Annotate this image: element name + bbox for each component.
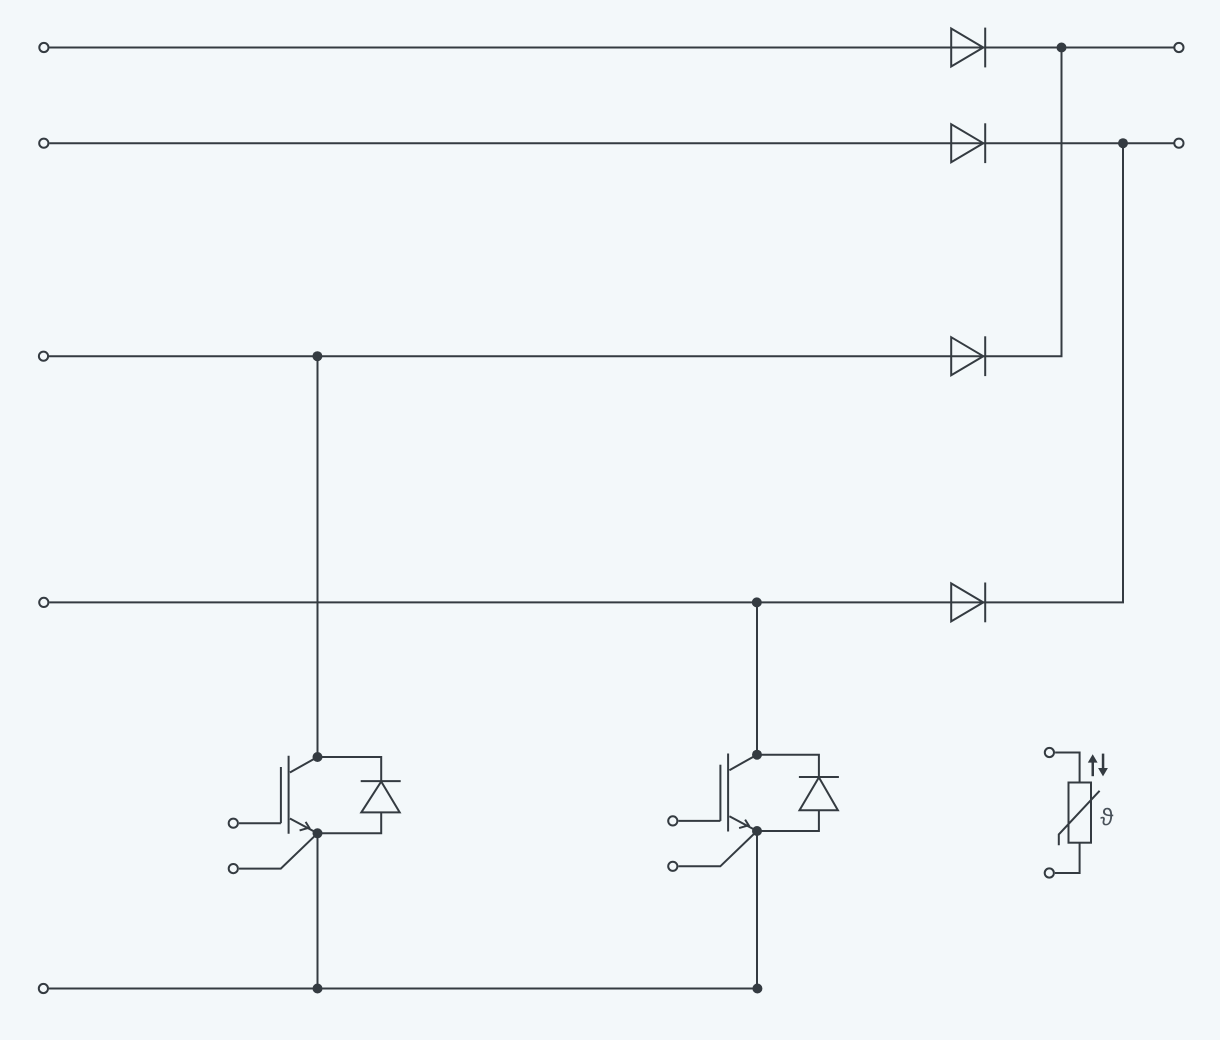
- Q1 aux emitter lead wire: [239, 833, 318, 868]
- Q2 emitter arrow: [739, 820, 749, 829]
- diode D1 (rail 1): [951, 28, 985, 68]
- wire AC input phase 1 (top rail): [49, 47, 1173, 49]
- Q1 freewheel diode branch wire (bottom): [318, 812, 382, 833]
- RT1 thermistor diagonal stroke: [1059, 791, 1100, 846]
- Q2 freewheel diode branch wire (top): [757, 755, 819, 777]
- Q2 gate bar: [719, 765, 721, 821]
- wire vertical from node on rail 2 down to diode D4 output: [1122, 143, 1123, 602]
- diode D2 (rail 2): [951, 123, 985, 163]
- Q2 collector lead: [729, 755, 757, 771]
- Q1 emitter node: [313, 828, 323, 838]
- Q2 freewheel diode triangle: [800, 777, 838, 810]
- Q1 gate bar: [280, 767, 282, 823]
- Q1 emitter arrow: [300, 822, 310, 831]
- thermistor RT1 (NTC temperature sensor): [1045, 748, 1114, 878]
- diode D3 (rail 3): [951, 336, 985, 376]
- junction node rail2 / D4 branch: [1118, 138, 1128, 148]
- RT1 up arrow (resistance change indicator): [1088, 754, 1098, 776]
- transistor Q2 (IGBT with freewheel diode): [668, 750, 839, 871]
- Q2 collector node: [752, 750, 762, 760]
- junction node bottom bus / Q1 emitter: [313, 984, 323, 994]
- RT1 down arrow (temperature indicator): [1098, 754, 1108, 777]
- wire rail 4 node down to IGBT Q2 collector: [756, 602, 758, 754]
- diode D4 (rail 4): [951, 583, 985, 623]
- terminal left rail 1: [39, 43, 48, 52]
- wire AC input phase 4 (fourth rail): [49, 601, 1122, 603]
- Q1 emitter lead: [290, 819, 318, 834]
- Q2 freewheel diode branch wire (bottom): [757, 810, 819, 831]
- Q2 aux emitter lead wire: [679, 831, 758, 866]
- Q2 aux emitter terminal: [668, 862, 677, 871]
- transistor Q1 (IGBT with freewheel diode): [229, 752, 401, 873]
- Q2 gate terminal: [668, 816, 677, 825]
- wire vertical from node on rail 1 down to diode D3 output: [1061, 48, 1062, 357]
- wire AC input phase 3 (third rail): [49, 355, 1061, 357]
- junction node rail3 / Q1 branch: [312, 351, 322, 361]
- RT1 top terminal: [1045, 748, 1054, 757]
- wire IGBT Q1 emitter down to bottom bus: [317, 833, 319, 988]
- Q2 emitter lead: [729, 816, 757, 831]
- Q1 aux emitter terminal: [229, 864, 238, 873]
- RT1 bottom lead wire: [1055, 843, 1080, 873]
- wire IGBT Q2 emitter down to bottom bus: [756, 831, 758, 989]
- wire rail 3 node down to IGBT Q1 collector: [317, 356, 319, 757]
- terminal left bottom bus: [39, 984, 48, 993]
- Q2 emitter node: [752, 826, 762, 836]
- junction node bottom bus / Q2 emitter: [752, 984, 762, 994]
- Q1 collector node: [313, 752, 323, 762]
- Q1 collector lead: [290, 757, 318, 773]
- junction node rail1 / D3 branch: [1057, 43, 1067, 53]
- wire AC input phase 2 (second rail): [49, 142, 1173, 144]
- Q2 freewheel diode cathode bar: [799, 776, 839, 778]
- Q1 body bar: [288, 756, 290, 834]
- RT1 top lead wire: [1055, 753, 1080, 783]
- terminal left rail 3: [39, 352, 48, 361]
- Q1 gate terminal: [229, 819, 238, 828]
- RT1 temperature symbol (theta): [1100, 808, 1113, 826]
- RT1 bottom terminal: [1045, 868, 1054, 877]
- Q1 gate lead wire: [239, 822, 281, 824]
- Q1 freewheel diode cathode bar: [361, 780, 401, 782]
- Q2 body bar: [727, 754, 729, 832]
- junction node rail4 / Q2 branch: [752, 597, 762, 607]
- terminal right rail 1: [1174, 43, 1183, 52]
- terminal right rail 2: [1174, 139, 1183, 148]
- terminal left rail 4: [39, 598, 48, 607]
- RT1 resistor body: [1069, 783, 1092, 843]
- wire DC minus bus (bottom rail): [49, 988, 758, 990]
- Q1 freewheel diode triangle: [361, 782, 399, 813]
- Q2 gate lead wire: [679, 820, 721, 822]
- terminal left rail 2: [39, 139, 48, 148]
- Q1 freewheel diode branch wire (top): [318, 757, 382, 781]
